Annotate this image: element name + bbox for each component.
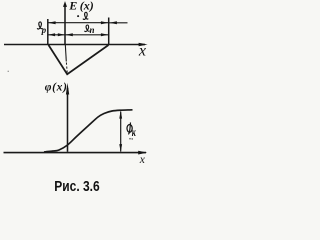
svg-text:x: x bbox=[138, 43, 146, 60]
svg-text:p: p bbox=[41, 25, 47, 35]
svg-text:n: n bbox=[90, 25, 95, 35]
svg-text:φ(x): φ(x) bbox=[45, 82, 68, 94]
svg-text:к: к bbox=[132, 127, 137, 140]
svg-text:Рис. 3.6: Рис. 3.6 bbox=[54, 178, 100, 195]
svg-text:x: x bbox=[139, 154, 146, 166]
svg-text:E (x): E (x) bbox=[68, 0, 93, 13]
